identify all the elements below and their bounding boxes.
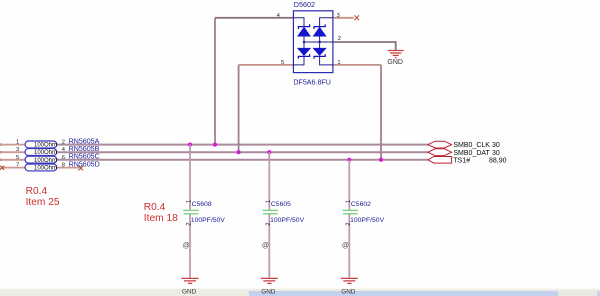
off-page connector SMB0_CLK: [428, 141, 452, 148]
resistor RN5605C: [25, 156, 57, 164]
capacitor C5602: [342, 160, 385, 278]
junction row3 C5602 tap: [347, 158, 351, 162]
C5608 plate top: [183, 209, 199, 211]
bottom band: [0, 289, 600, 296]
junction row2 pin5 tap: [237, 150, 241, 154]
svg-text:Item 18: Item 18: [144, 213, 178, 224]
svg-text:@: @: [183, 242, 190, 249]
C5605 plate top: [263, 209, 279, 211]
ground symbol below C5602: [341, 278, 358, 283]
scrollbar thumb: [558, 291, 597, 296]
C5605 plate bottom: [263, 213, 278, 215]
svg-text:GND: GND: [341, 288, 356, 295]
zener diode top-left anode lead: [303, 36, 305, 42]
svg-text:RN5605C: RN5605C: [69, 153, 100, 161]
D5602 internal wire pin3 to right column: [320, 18, 333, 27]
junction row3 pin1 tap: [379, 158, 383, 162]
svg-text:Item 25: Item 25: [26, 197, 60, 208]
svg-text:@: @: [262, 242, 269, 249]
junction row1 C5608 tap: [188, 143, 192, 147]
svg-text:GND: GND: [261, 288, 276, 295]
svg-text:DF5A6.8FU: DF5A6.8FU: [293, 79, 330, 87]
wire row3 right segment: [57, 159, 428, 161]
svg-text:100Ohm: 100Ohm: [34, 143, 57, 149]
svg-text:88,90: 88,90: [489, 157, 507, 164]
svg-text:100Ohm: 100Ohm: [34, 166, 57, 172]
svg-text:C5602: C5602: [351, 201, 371, 208]
svg-text:100Ohm: 100Ohm: [34, 150, 57, 156]
svg-text:5: 5: [16, 155, 19, 161]
svg-text:SMB0_DAT: SMB0_DAT: [453, 150, 490, 157]
wire stub D5602 pin3: [333, 17, 354, 19]
ground symbol below C5605: [261, 278, 278, 283]
zener diode bottom-left anode lead: [303, 42, 305, 48]
svg-text:3: 3: [337, 13, 340, 19]
D5602 internal junction right anode: [319, 41, 321, 43]
zener diode bottom-right anode lead: [319, 42, 321, 48]
D5602 internal middle rail pin2: [304, 41, 333, 43]
svg-text:1: 1: [16, 140, 19, 146]
wire horizontal D5602 pin4: [215, 17, 293, 19]
svg-text:RN5605D: RN5605D: [69, 160, 100, 168]
scrollbar track: [249, 291, 600, 296]
resistor RN5605A: [25, 141, 57, 149]
svg-text:@: @: [342, 242, 349, 249]
zener diode top-right anode lead: [319, 36, 321, 42]
D5602 internal wire right column to pin1: [320, 56, 333, 65]
svg-text:30: 30: [492, 142, 500, 149]
wire row4 stub left: [2, 167, 25, 169]
svg-text:R0.4: R0.4: [144, 202, 166, 213]
wire vertical row2 to C5605: [268, 152, 270, 210]
resistor RN5605D: [25, 164, 57, 172]
wire vertical from D5602 pin5 to row2: [238, 65, 240, 152]
svg-text:100PF/50V: 100PF/50V: [350, 217, 384, 224]
wire C5605 to ground: [268, 214, 270, 278]
wire horizontal D5602 pin1: [333, 64, 381, 66]
wire row1 right segment: [57, 144, 428, 146]
svg-text:3: 3: [16, 147, 19, 153]
svg-text:SMB0_CLK: SMB0_CLK: [453, 142, 490, 149]
svg-text:R0.4: R0.4: [26, 186, 48, 197]
wire C5602 to ground: [348, 214, 350, 278]
wire vertical from D5602 pin1 to row3: [380, 65, 382, 160]
D5602 internal wire left column to pin5: [293, 56, 304, 65]
svg-text:100PF/50V: 100PF/50V: [270, 217, 304, 224]
no-connect X D5602 pin3: [354, 15, 359, 20]
svg-text:C5605: C5605: [271, 201, 291, 208]
wire edge tick row3: [0, 159, 2, 161]
no-connect X row4 right: [78, 166, 83, 171]
zener diode bottom-right body: [314, 48, 326, 55]
ground symbol top GND: [388, 51, 404, 58]
svg-text:GND: GND: [182, 288, 197, 295]
zener diode bottom-left cathode bar: [298, 54, 309, 59]
junction row1 pin4 tap: [213, 143, 217, 147]
svg-text:2: 2: [338, 36, 341, 42]
zener diode bottom-right cathode bar: [314, 54, 325, 59]
zener diode top-left body: [298, 28, 310, 36]
wire row2 right segment: [57, 151, 428, 153]
svg-text:2: 2: [62, 140, 65, 146]
svg-text:30: 30: [492, 150, 500, 157]
ground symbol below C5608: [181, 278, 198, 283]
svg-text:D5602: D5602: [294, 0, 315, 9]
wire row1 SMB0_CLK bus: [0, 144, 25, 146]
off-page connector SMB0_DAT: [428, 149, 452, 156]
svg-text:1: 1: [337, 60, 340, 66]
resistor RN5605B: [25, 149, 57, 157]
zener diode bottom-left body: [298, 48, 310, 55]
off-page connector TS1#: [428, 157, 452, 164]
C5608 plate bottom: [184, 213, 199, 215]
wire edge tick row1: [0, 143, 2, 145]
D5602 internal junction left anode: [303, 41, 305, 43]
svg-text:GND: GND: [387, 59, 403, 66]
wire horizontal D5602 pin5: [239, 64, 294, 66]
svg-text:C5608: C5608: [192, 201, 212, 208]
svg-text:100Ohm: 100Ohm: [34, 158, 57, 164]
zener diode top-right body: [314, 28, 326, 36]
svg-text:TS1#: TS1#: [453, 157, 470, 164]
wire row3 TS1# bus: [0, 159, 25, 161]
no-connect X row4 left: [0, 166, 4, 170]
C5602 plate bottom: [343, 213, 358, 215]
zener diode top-right cathode bar: [314, 24, 325, 29]
wire row4 stub right: [57, 167, 79, 169]
C5602 plate top: [343, 209, 359, 211]
wire horizontal D5602 pin2 to GND: [333, 42, 396, 50]
svg-text:7: 7: [16, 163, 19, 169]
svg-text:8: 8: [62, 163, 65, 169]
svg-text:100PF/50V: 100PF/50V: [191, 217, 225, 224]
D5602 internal wire pin4 to left column: [293, 18, 304, 27]
wire edge tick row2: [0, 151, 2, 153]
wire vertical row3 to C5602: [348, 160, 350, 210]
diode array D5602: [293, 11, 333, 73]
zener diode top-left cathode bar: [298, 24, 309, 29]
wire C5608 to ground: [189, 214, 191, 278]
capacitor C5608: [183, 145, 226, 279]
wire row2 SMB0_DAT bus: [0, 151, 25, 153]
junction row2 C5605 tap: [267, 150, 271, 154]
capacitor C5605: [262, 152, 305, 278]
svg-text:6: 6: [62, 155, 65, 161]
D5602 box outline: [293, 11, 333, 73]
wire vertical from D5602 pin4 to row1: [214, 18, 216, 145]
svg-text:5: 5: [281, 60, 284, 66]
wire vertical row1 to C5608: [189, 145, 191, 210]
